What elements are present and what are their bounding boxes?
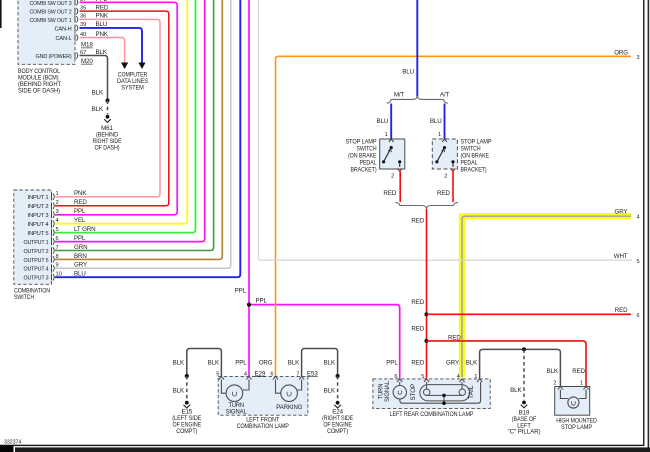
svg-text:5: 5 bbox=[421, 374, 424, 380]
svg-text:PPL: PPL bbox=[235, 288, 247, 295]
rear lamp pin chevrons 6,5,4,1 bbox=[397, 379, 482, 382]
svg-text:COMBINATION LAMP: COMBINATION LAMP bbox=[237, 423, 289, 430]
svg-text:PPL: PPL bbox=[74, 208, 86, 215]
svg-text:PPL: PPL bbox=[235, 360, 247, 367]
svg-text:SYSTEM: SYSTEM bbox=[121, 85, 144, 92]
svg-text:6: 6 bbox=[637, 313, 640, 319]
arrow CAN-H bbox=[138, 63, 145, 70]
wire COMBI SW OUT 3 PPL (BCM pin 37 to comb switch input 3) bbox=[55, 2, 177, 215]
junction dot RED node 2 bbox=[424, 339, 428, 343]
svg-text:PNK: PNK bbox=[74, 190, 87, 197]
svg-text:3: 3 bbox=[56, 209, 59, 215]
parking bulb (front) bbox=[276, 380, 302, 402]
junction dot RED node 1 bbox=[424, 312, 428, 316]
svg-text:RED: RED bbox=[411, 218, 424, 225]
comb switch pin connector arcs bbox=[52, 194, 55, 281]
page border right lines bbox=[643, 0, 645, 446]
scrollbar corner black box bbox=[0, 446, 14, 452]
svg-text:4: 4 bbox=[244, 371, 247, 377]
svg-text:40: 40 bbox=[80, 32, 86, 38]
junction dot PPL bbox=[247, 303, 251, 307]
turn signal bulb (front) bbox=[221, 380, 249, 402]
svg-text:RED: RED bbox=[383, 190, 396, 197]
svg-text:BRN: BRN bbox=[74, 253, 87, 260]
stop lamp switch M/T pin 1 chevron bbox=[389, 139, 394, 142]
svg-text:INPUT 5: INPUT 5 bbox=[28, 231, 50, 237]
rear stop/tail dual filament bulb bbox=[420, 382, 470, 403]
wire RED merged trunk down to rear lamp pin 5 bbox=[426, 209, 428, 379]
high mount pin chevrons 2,1 bbox=[558, 387, 589, 390]
svg-text:BLK: BLK bbox=[288, 360, 300, 367]
svg-text:BLK: BLK bbox=[547, 368, 559, 375]
svg-text:STOP LAMP: STOP LAMP bbox=[346, 139, 377, 146]
stop lamp switch M/T pin 2 chevron bbox=[397, 169, 402, 172]
BCM pin connector arcs bbox=[75, 0, 78, 59]
svg-text:GRY: GRY bbox=[446, 360, 459, 367]
wire ORG (from right edge connector 3 down to front lamp pin 6) bbox=[276, 56, 632, 376]
svg-text:GRN: GRN bbox=[74, 244, 87, 251]
wire BLK dashed to E15 ground bbox=[186, 376, 188, 401]
wire BLK dashed to M61 bbox=[107, 101, 109, 115]
stop lamp switch A/T contacts bbox=[443, 146, 446, 149]
svg-text:COMPT): COMPT) bbox=[327, 428, 348, 435]
left front combination lamp box bbox=[218, 376, 308, 415]
svg-text:BLK: BLK bbox=[324, 388, 336, 395]
stop lamp switch box M/T (U1) bbox=[380, 139, 405, 169]
svg-text:BRACKET): BRACKET) bbox=[351, 167, 377, 174]
svg-text:RED: RED bbox=[448, 334, 461, 341]
brace split M/T A/T bbox=[387, 97, 448, 104]
stop lamp switch A/T pin 2 chevron bbox=[451, 169, 456, 172]
wire GND (POWER) BLK bbox=[80, 56, 108, 101]
svg-text:M20: M20 bbox=[81, 58, 93, 65]
svg-text:BLK: BLK bbox=[173, 388, 185, 395]
svg-text:BLK: BLK bbox=[92, 90, 104, 97]
wire BLK front lamp pin 7 to E24 bbox=[302, 349, 338, 377]
svg-text:BLK: BLK bbox=[324, 360, 336, 367]
svg-text:WHT: WHT bbox=[614, 253, 628, 260]
svg-text:OUTPUT 2: OUTPUT 2 bbox=[24, 249, 49, 255]
wire RED branch to right edge connector 6 bbox=[427, 313, 632, 315]
wire GRY rear lamp pin 4 to right edge connector 4 bbox=[462, 216, 631, 377]
svg-text:OF DASH): OF DASH) bbox=[95, 144, 120, 151]
svg-text:9: 9 bbox=[56, 263, 59, 269]
svg-text:PPL: PPL bbox=[74, 235, 86, 242]
svg-text:36: 36 bbox=[80, 14, 86, 20]
front lamp pin chevrons 5,4,6,7 bbox=[219, 376, 304, 379]
arrow CAN-L bbox=[121, 63, 128, 70]
svg-text:COMBI SW OUT 3: COMBI SW OUT 3 bbox=[30, 1, 73, 7]
scrollbar track bottom bbox=[15, 447, 650, 452]
svg-text:SWITCH: SWITCH bbox=[14, 294, 34, 301]
svg-text:1: 1 bbox=[385, 132, 388, 138]
wire input 4 YEL (comb switch pin 4, up off top) bbox=[55, 0, 187, 224]
svg-text:"C" PILLAR): "C" PILLAR) bbox=[508, 429, 541, 436]
svg-text:LT GRN: LT GRN bbox=[74, 226, 96, 233]
svg-text:GRY: GRY bbox=[74, 262, 87, 269]
svg-text:BLK: BLK bbox=[96, 49, 108, 56]
junction dot bus bbox=[442, 401, 446, 405]
svg-text:INPUT 2: INPUT 2 bbox=[28, 204, 49, 210]
left rear combination lamp box bbox=[373, 379, 490, 409]
wire CAN-L PNK to computer data lines bbox=[80, 38, 125, 64]
svg-text:(ON BRAKE: (ON BRAKE bbox=[348, 153, 377, 160]
wire output 5 BRN (pin 8, up off top) bbox=[55, 0, 222, 259]
wire BLK front lamp pin 5 to E15 bbox=[187, 349, 222, 377]
svg-text:5: 5 bbox=[216, 371, 219, 377]
svg-text:4: 4 bbox=[56, 218, 59, 224]
svg-text:PEDAL: PEDAL bbox=[461, 160, 479, 167]
wire output 1 PPL (pin 6, up off top) bbox=[55, 0, 205, 242]
wire BLK dashed to B19 ground bbox=[523, 349, 525, 400]
svg-text:RED: RED bbox=[615, 307, 628, 314]
svg-text:RED: RED bbox=[572, 368, 585, 375]
svg-text:(ON BRAKE: (ON BRAKE bbox=[461, 153, 490, 160]
svg-text:7: 7 bbox=[296, 371, 299, 377]
high mount bulb bbox=[560, 390, 586, 409]
svg-text:BLU: BLU bbox=[96, 21, 108, 28]
svg-text:2: 2 bbox=[444, 173, 447, 179]
svg-text:PEDAL: PEDAL bbox=[360, 160, 378, 167]
wire BLK rear lamp pin 1 to high mount pin 2 bbox=[480, 349, 561, 386]
svg-text:BRACKET): BRACKET) bbox=[461, 167, 487, 174]
svg-text:SIGNAL: SIGNAL bbox=[384, 380, 391, 402]
svg-text:OUTPUT 1: OUTPUT 1 bbox=[24, 240, 49, 246]
svg-text:RED: RED bbox=[96, 4, 109, 11]
junction dot BLK E15 bbox=[185, 374, 189, 378]
svg-text:BLK: BLK bbox=[173, 360, 185, 367]
svg-text:INPUT 4: INPUT 4 bbox=[28, 222, 50, 228]
wire BLU M/T branch bbox=[390, 104, 392, 140]
svg-text:BLK: BLK bbox=[92, 106, 104, 113]
wire RED branch to high mounted stop lamp pin 1 bbox=[427, 341, 587, 387]
ground B19 bbox=[522, 401, 526, 405]
wire WHT (from top, down at x258.4, right to edge connector 5) bbox=[258, 0, 632, 260]
svg-text:TAIL: TAIL bbox=[468, 385, 475, 399]
svg-text:STOP: STOP bbox=[410, 384, 417, 401]
svg-text:RED: RED bbox=[411, 299, 424, 306]
svg-text:67: 67 bbox=[80, 50, 86, 56]
wire output 4 GRY (pin 9, up off top) bbox=[55, 0, 231, 268]
wire COMBI SW OUT 1 PNK (BCM pin 36 to comb switch input 1) bbox=[55, 19, 160, 196]
svg-text:1: 1 bbox=[438, 132, 441, 138]
svg-text:BLK: BLK bbox=[466, 360, 478, 367]
svg-text:SIGNAL: SIGNAL bbox=[226, 408, 248, 415]
high mounted stop lamp box bbox=[555, 387, 590, 416]
svg-text:COMPT): COMPT) bbox=[176, 428, 197, 435]
svg-text:BLU: BLU bbox=[74, 271, 86, 278]
svg-text:INPUT 3: INPUT 3 bbox=[28, 213, 50, 219]
svg-text:OUTPUT 4: OUTPUT 4 bbox=[24, 267, 50, 273]
svg-text:2: 2 bbox=[391, 173, 394, 179]
BCM box (Body Control Module) bbox=[18, 0, 75, 64]
wire PPL branch to rear lamp pin 6 bbox=[249, 305, 400, 379]
ground E24 bbox=[336, 401, 340, 405]
svg-text:PPL: PPL bbox=[256, 298, 268, 305]
wire COMBI SW OUT 2 RED (BCM pin 35 to comb switch input 2) bbox=[55, 11, 169, 206]
svg-text:6: 6 bbox=[56, 236, 59, 242]
svg-text:SWITCH: SWITCH bbox=[461, 146, 481, 153]
svg-text:2: 2 bbox=[553, 381, 556, 387]
junction dot BLK bbox=[105, 98, 109, 102]
svg-text:M/T: M/T bbox=[394, 92, 405, 99]
svg-text:7: 7 bbox=[56, 245, 59, 251]
svg-text:PARKING: PARKING bbox=[276, 404, 302, 411]
svg-text:LEFT REAR COMBINATION LAMP: LEFT REAR COMBINATION LAMP bbox=[390, 411, 474, 418]
svg-text:1: 1 bbox=[580, 381, 583, 387]
rear lamp ground bus to pin 1 bbox=[400, 382, 481, 403]
svg-text:A/T: A/T bbox=[440, 92, 450, 99]
wire CAN-H BLU to computer data lines bbox=[80, 28, 143, 63]
svg-text:RED: RED bbox=[411, 326, 424, 333]
svg-text:BLK: BLK bbox=[208, 360, 220, 367]
svg-text:BLU: BLU bbox=[377, 118, 389, 125]
svg-text:E53: E53 bbox=[307, 370, 318, 377]
junction dot BLK B19 bbox=[522, 347, 526, 351]
svg-text:BLU: BLU bbox=[430, 118, 442, 125]
left edge top black mark bbox=[0, 0, 2, 28]
wire BLK dashed to E24 ground bbox=[337, 376, 339, 401]
wire RED A/T switch pin 2 down bbox=[452, 172, 454, 203]
svg-text:4: 4 bbox=[457, 374, 460, 380]
svg-text:3: 3 bbox=[637, 55, 640, 61]
page border bottom line bbox=[0, 445, 644, 446]
svg-text:STOP LAMP: STOP LAMP bbox=[561, 424, 592, 431]
svg-text:COMBI SW OUT 2: COMBI SW OUT 2 bbox=[30, 10, 72, 16]
wire BLU stop lamp feed (top to split brace) bbox=[416, 0, 418, 97]
svg-text:PPL: PPL bbox=[386, 360, 398, 367]
rear turn signal bulb bbox=[393, 382, 406, 399]
svg-text:5: 5 bbox=[637, 259, 640, 265]
combination switch box bbox=[14, 190, 52, 284]
wire output 3 BLU (pin 10, up off top) bbox=[55, 0, 240, 277]
svg-text:2: 2 bbox=[56, 200, 59, 206]
svg-text:ORG: ORG bbox=[614, 49, 628, 56]
svg-text:RED: RED bbox=[74, 199, 87, 206]
svg-text:PPL: PPL bbox=[96, 0, 108, 3]
svg-text:COMBI SW OUT 1: COMBI SW OUT 1 bbox=[30, 18, 72, 24]
svg-text:OUTPUT 3: OUTPUT 3 bbox=[24, 276, 50, 282]
svg-text:PNK: PNK bbox=[96, 31, 109, 38]
svg-text:OUTPUT 5: OUTPUT 5 bbox=[24, 258, 50, 264]
ground E15 bbox=[185, 401, 189, 405]
svg-text:M18: M18 bbox=[81, 42, 93, 49]
svg-text:BLU: BLU bbox=[402, 69, 414, 76]
yellow highlight band (GRY circuit) bbox=[459, 216, 631, 377]
svg-text:6: 6 bbox=[270, 371, 273, 377]
junction dot filament bbox=[442, 394, 446, 398]
wire input 5 LT GRN (pin 5, up off top) bbox=[55, 0, 196, 233]
svg-text:CAN-L: CAN-L bbox=[56, 36, 73, 42]
svg-text:39: 39 bbox=[80, 22, 86, 28]
brace merge bbox=[395, 202, 458, 208]
svg-text:5: 5 bbox=[56, 227, 59, 233]
svg-text:37: 37 bbox=[80, 0, 86, 3]
svg-text:4: 4 bbox=[637, 215, 640, 221]
svg-text:10: 10 bbox=[56, 272, 62, 278]
svg-text:35: 35 bbox=[80, 5, 86, 11]
wire BLU A/T branch bbox=[444, 104, 446, 140]
svg-text:332374: 332374 bbox=[4, 440, 21, 446]
svg-text:SIDE OF DASH): SIDE OF DASH) bbox=[18, 88, 60, 95]
svg-text:PNK: PNK bbox=[96, 13, 109, 20]
svg-text:RED: RED bbox=[411, 360, 424, 367]
stop lamp switch M/T contacts bbox=[390, 146, 393, 149]
svg-text:ORG: ORG bbox=[259, 360, 273, 367]
junction dot BLK E24 bbox=[336, 374, 340, 378]
svg-text:6: 6 bbox=[394, 374, 397, 380]
svg-text:RED: RED bbox=[437, 190, 450, 197]
stop lamp switch A/T pin 1 chevron bbox=[442, 139, 447, 142]
svg-text:1: 1 bbox=[474, 374, 477, 380]
svg-text:STOP LAMP: STOP LAMP bbox=[461, 139, 492, 146]
svg-text:YEL: YEL bbox=[74, 217, 86, 224]
wire RED M/T switch pin 2 down bbox=[399, 172, 401, 203]
svg-text:CAN-H: CAN-H bbox=[55, 26, 72, 32]
svg-text:GND (POWER): GND (POWER) bbox=[36, 54, 72, 60]
wire PPL trunk (from top to front lamp pin 4, junction at y304.6) bbox=[248, 0, 250, 376]
stop lamp switch box A/T (U2) bbox=[432, 139, 457, 169]
svg-text:E29: E29 bbox=[255, 370, 266, 377]
ground M61 bbox=[106, 115, 110, 119]
svg-text:BLK: BLK bbox=[510, 387, 522, 394]
wire output 2 GRN (pin 7, up off top) bbox=[55, 0, 214, 251]
svg-text:GRY: GRY bbox=[615, 209, 628, 216]
svg-text:1: 1 bbox=[56, 191, 59, 197]
svg-text:8: 8 bbox=[56, 254, 59, 260]
svg-text:SWITCH: SWITCH bbox=[357, 146, 377, 153]
svg-text:INPUT 1: INPUT 1 bbox=[28, 195, 49, 201]
